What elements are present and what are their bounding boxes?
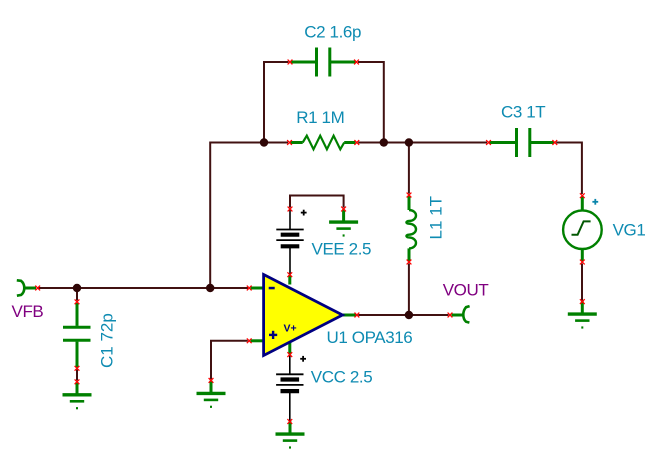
svg-text:VCC 2.5: VCC 2.5 [311,367,372,386]
svg-text:C3 1T: C3 1T [501,103,545,122]
svg-text:VFB: VFB [12,302,44,321]
svg-text:VOUT: VOUT [443,281,489,300]
svg-text:VEE 2.5: VEE 2.5 [312,239,372,258]
svg-text:R1 1M: R1 1M [296,108,344,127]
svg-text:C1 72p: C1 72p [97,313,116,368]
svg-text:C2 1.6p: C2 1.6p [304,23,361,42]
svg-text:U1 OPA316: U1 OPA316 [327,328,413,347]
svg-text:VG1: VG1 [613,221,646,240]
svg-text:L1 1T: L1 1T [426,196,445,239]
svg-text:V+: V+ [284,323,297,335]
